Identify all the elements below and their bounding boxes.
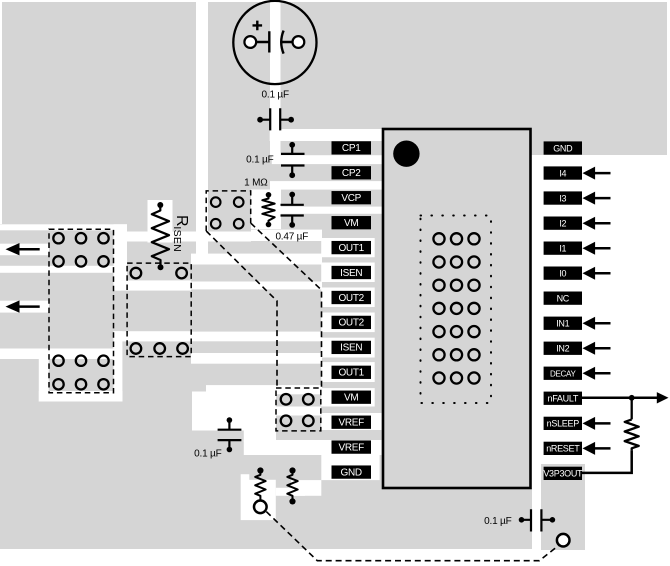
dashed route sense via to bottom via: [266, 512, 558, 561]
trace channel jog to J2: [114, 266, 122, 291]
svg-text:1 MΩ: 1 MΩ: [244, 178, 268, 189]
trace run OUT1: [127, 232, 251, 242]
arrow into nSLEEP: [583, 417, 596, 430]
trace channel left edge bottom: [0, 349, 114, 360]
arrow into I2: [583, 217, 596, 230]
pin IN2: [544, 342, 582, 355]
svg-text:VM: VM: [344, 393, 358, 404]
pin OUT2 b: [332, 316, 372, 329]
pin GND: [332, 465, 372, 478]
copper pour below IC: [384, 488, 532, 549]
trace channel CP1 row: [270, 129, 383, 141]
resistor R3 sense left: [255, 467, 265, 500]
svg-text:0.47 µF: 0.47 µF: [275, 231, 308, 242]
copper pour middle block: [208, 128, 384, 549]
arrow into DECAY: [583, 367, 596, 380]
pin pocket OUT1 b: [321, 362, 375, 382]
pin VM: [332, 216, 372, 229]
svg-text:nRESET: nRESET: [546, 444, 580, 454]
arrow into IN2: [583, 342, 596, 355]
arrow into I1: [583, 242, 596, 255]
pin I3: [544, 191, 582, 204]
pin I1: [544, 242, 582, 255]
resistor R1 1 Mohm: [262, 192, 274, 227]
connector J2 outline: [127, 263, 191, 357]
connector J4 pads: [281, 394, 314, 426]
resistor R5 pullup: [625, 419, 639, 450]
trace channel VCP row: [270, 181, 383, 190]
pin OUT1: [332, 241, 372, 254]
connector J3 pads: [211, 197, 244, 228]
svg-text:0.1 µF: 0.1 µF: [194, 449, 221, 460]
capacitor C1 left pad: [244, 36, 256, 48]
pin ISEN: [332, 266, 372, 279]
trace channel arrow 2: [0, 301, 49, 313]
capacitor C4 0.47uF: [281, 192, 304, 228]
svg-text:0.1 µF: 0.1 µF: [262, 90, 289, 101]
copper pour V3P3OUT column: [541, 464, 585, 550]
arrow into IN1: [583, 317, 596, 330]
trace channel right of J1 bottom: [114, 331, 123, 401]
pin I0: [544, 267, 582, 280]
svg-text:I1: I1: [559, 243, 566, 253]
svg-text:0.1 µF: 0.1 µF: [484, 516, 511, 527]
wire junction down: [631, 398, 633, 420]
capacitor C1 right pad: [293, 36, 305, 48]
trace pocket sense resistors: [241, 480, 276, 520]
svg-text:GND: GND: [553, 143, 573, 153]
resistor R2 RISEN: [152, 202, 169, 270]
pin 1 marker: [393, 141, 419, 167]
trace run OUT2: [191, 282, 322, 290]
trace channel thin upper left: [0, 224, 127, 230]
arrow out nFAULT: [657, 392, 669, 403]
svg-text:VCP: VCP: [341, 193, 361, 204]
trace pocket RISEN resistor: [148, 200, 173, 243]
svg-text:IN2: IN2: [556, 344, 569, 354]
pin DECAY: [544, 367, 582, 380]
capacitor C1 electrolytic outline: [233, 1, 316, 84]
connector J1 outline: [49, 229, 114, 392]
arrow into I0: [583, 267, 596, 280]
trace run OUT2 b: [191, 332, 322, 342]
pin CP1: [332, 141, 372, 154]
trace pocket VREF cap: [192, 392, 276, 431]
pin I4: [544, 166, 582, 179]
pin ISEN b: [332, 341, 372, 354]
trace channel VREF jog: [244, 430, 276, 442]
op-amp U1 IC body: [383, 129, 531, 488]
pin pocket OUT1: [321, 238, 375, 257]
svg-text:VREF: VREF: [338, 442, 364, 453]
pin NC: [544, 292, 582, 305]
pin pocket VREF: [321, 413, 381, 430]
svg-text:CP1: CP1: [342, 143, 361, 154]
trace channel arrow 1: [0, 244, 49, 256]
trace channel across right sense resistor: [276, 488, 305, 496]
trace channel left of J1 bottom: [39, 358, 49, 401]
trace channel vertical left of cap: [196, 0, 208, 256]
capacitor C6 0.1uF bottom right: [519, 509, 556, 531]
trace channel across VM connector: [276, 407, 321, 416]
thermal vias: [433, 233, 444, 244]
svg-text:I4: I4: [559, 168, 566, 178]
thermal pad outline: [421, 216, 492, 404]
trace channel VREF row b: [244, 440, 382, 455]
copper pour left block: [0, 224, 208, 549]
dashed route bus right: [251, 223, 322, 388]
pin pocket VM b: [321, 388, 375, 406]
connector J4 outline: [276, 388, 321, 431]
trace run ISEN: [191, 254, 322, 265]
arrow out left 1: [16, 248, 40, 251]
pin nRESET: [544, 442, 582, 455]
pin CP2: [332, 166, 372, 179]
svg-text:IN1: IN1: [556, 319, 569, 329]
trace pocket VCP/VM components: [251, 190, 281, 230]
capacitor C1 plates and leads: [256, 31, 269, 52]
svg-text:CP2: CP2: [342, 168, 361, 179]
trace channel across connector J2: [114, 280, 192, 290]
capacitor C1 plus sign: [253, 21, 263, 31]
trace channel under J1: [39, 391, 123, 402]
pin pocket ISEN b: [321, 338, 375, 358]
svg-text:V3P3OUT: V3P3OUT: [543, 469, 583, 479]
pin pocket OUT2: [321, 288, 375, 308]
svg-text:I3: I3: [559, 193, 566, 203]
trace run VM b: [206, 385, 322, 394]
wire nFAULT to arrow: [582, 397, 658, 400]
svg-text:ISEN: ISEN: [340, 268, 362, 279]
via bottom right: [557, 534, 570, 547]
pin IN1: [544, 317, 582, 330]
pin OUT2: [332, 291, 372, 304]
arrow out left 2: [16, 305, 40, 308]
svg-text:VREF: VREF: [338, 418, 364, 429]
wire resistor to V3P3OUT: [582, 450, 632, 473]
pin GND right: [544, 141, 582, 154]
svg-text:OUT1: OUT1: [338, 243, 364, 254]
trace channel across connector J1: [0, 266, 119, 273]
copper pour top: [2, 2, 667, 155]
svg-text:OUT2: OUT2: [338, 293, 364, 304]
svg-text:GND: GND: [341, 467, 362, 478]
trace run OUT1 right part: [251, 230, 322, 241]
trace run ISEN b: [191, 353, 322, 364]
capacitor C2 0.1uF top: [257, 108, 294, 130]
node junction nFAULT: [629, 395, 635, 401]
trace channel VM row: [270, 207, 383, 214]
svg-text:I0: I0: [559, 268, 566, 278]
pin I2: [544, 217, 582, 230]
arrow into I4: [583, 167, 596, 180]
trace channel through electrolytic cap: [270, 0, 281, 156]
trace pocket below GND: [291, 480, 321, 496]
connector J2 pads: [131, 268, 188, 354]
svg-text:nFAULT: nFAULT: [548, 394, 579, 404]
svg-text:I2: I2: [559, 218, 566, 228]
pin VREF: [332, 416, 372, 429]
arrow into I3: [583, 192, 596, 205]
pin pocket ISEN: [321, 263, 375, 283]
pin VREF b: [332, 440, 372, 453]
svg-text:nSLEEP: nSLEEP: [547, 419, 580, 429]
capacitor C5 0.1uF VREF: [218, 417, 242, 452]
svg-text:NC: NC: [557, 293, 570, 303]
capacitor C3 0.1uF CP1-CP2: [281, 142, 305, 178]
pin V3P3OUT: [544, 467, 582, 480]
trace channel jog right of J1: [114, 224, 128, 280]
svg-text:ISEN: ISEN: [340, 343, 362, 354]
connector J3 outline: [206, 191, 251, 231]
pin OUT1 b: [332, 366, 372, 379]
svg-text:DECAY: DECAY: [550, 370, 576, 379]
via sense: [254, 501, 267, 514]
pin nFAULT: [544, 392, 582, 405]
copper pour top-left extension: [2, 128, 196, 224]
svg-text:VM: VM: [344, 218, 358, 229]
pin VCP: [332, 191, 372, 204]
svg-text:0.1 µF: 0.1 µF: [246, 155, 273, 166]
svg-text:OUT2: OUT2: [338, 318, 364, 329]
resistor R4 sense right: [287, 467, 297, 504]
trace channel GND row: [321, 455, 379, 480]
arrow into nRESET: [583, 442, 596, 455]
dashed route bus left: [206, 231, 277, 388]
trace channel CP2 row: [272, 155, 383, 164]
trace pocket sense left col: [241, 474, 250, 480]
pin nSLEEP: [544, 417, 582, 430]
trace channel across connector J2 lower: [114, 331, 192, 341]
pin pocket OUT2 b: [321, 313, 375, 333]
connector J1 pads: [53, 233, 108, 389]
svg-text:OUT1: OUT1: [338, 368, 364, 379]
pin VM b: [332, 391, 372, 404]
